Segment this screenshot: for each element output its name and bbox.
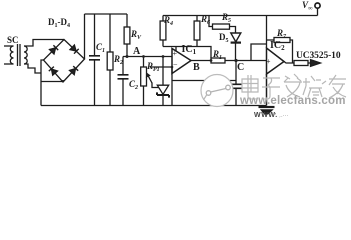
watermark url text: [240, 95, 350, 107]
watermark circle logo: [201, 75, 233, 107]
resistor R6 lead top: [196, 16, 198, 22]
node B wire: [191, 60, 211, 62]
capacitor C3 plates: [231, 84, 242, 88]
bridge diode D1: [50, 48, 56, 54]
capacitor C2 lead top: [122, 57, 124, 75]
bridge diode D2: [70, 45, 76, 51]
wire Vcc to IC2: [266, 16, 268, 49]
resistor R4 lead bottom: [162, 40, 164, 47]
wire IC1 minus to lower bus: [171, 67, 173, 106]
resistor R1 body: [211, 58, 225, 63]
IC2 output wire: [284, 62, 294, 64]
wire R4 R6 to node B: [163, 47, 211, 59]
IC2 input loop box: [251, 44, 267, 61]
resistor RV body: [124, 27, 130, 44]
wire bridge left leg: [41, 60, 44, 106]
resistor R7 lead right: [290, 40, 293, 63]
capacitor C2 plates: [118, 75, 129, 79]
output arrow: [311, 60, 321, 67]
resistor R5 lead left: [209, 16, 213, 27]
op-amp IC2 triangle: [267, 48, 285, 74]
bridge diode D3: [52, 69, 58, 75]
wire secondary top to bridge: [24, 40, 64, 47]
resistor R2 lead bottom: [109, 70, 111, 106]
resistor R4 lead top: [162, 16, 164, 22]
Vcc terminal circle: [315, 3, 320, 8]
wire bus to IC1 plus input: [175, 47, 177, 52]
zener diode triangle: [157, 85, 168, 94]
resistor R7 body: [274, 38, 290, 43]
wire IC1 minus input: [150, 66, 172, 68]
capacitor C1 lead top: [94, 14, 96, 56]
junction dots: [126, 55, 238, 68]
potentiometer RP1 wiper arrow: [148, 75, 152, 83]
zener diode lead top: [162, 57, 164, 86]
diode D5 triangle: [231, 33, 241, 42]
labels: [7, 35, 19, 45]
output wire to arrow: [308, 62, 311, 64]
capacitor C1 plates: [89, 56, 100, 60]
bridge diode D4: [70, 69, 76, 75]
wire R1 to node C: [225, 60, 267, 62]
resistor RV lead top: [126, 14, 128, 27]
wire bridge bottom leg: [41, 80, 63, 82]
transformer SC primary stub top: [4, 45, 14, 47]
transformer SC secondary winding: [24, 46, 27, 64]
resistor R6 lead bottom: [196, 40, 198, 47]
top rail Vcc: [163, 15, 318, 17]
node A wire: [123, 56, 172, 58]
diode D5 lead bottom: [235, 42, 237, 61]
op-amp IC1 triangle: [172, 49, 191, 74]
watermark hanzi outlines: [242, 74, 346, 99]
zener diode lead bottom: [162, 95, 164, 106]
potentiometer RP1 lead top: [143, 57, 145, 68]
ground symbol: [259, 106, 275, 108]
resistor R2 lead top: [109, 14, 111, 52]
resistor RV lead bottom: [126, 44, 128, 57]
bottom rail: [41, 105, 267, 107]
top-left rail: [85, 13, 128, 15]
transformer SC primary stub bottom: [4, 63, 14, 65]
potentiometer RP1 body: [141, 67, 147, 86]
op-amp IC2 ground lead: [266, 74, 268, 106]
zener diode bar: [157, 92, 169, 97]
capacitor C1 lead bottom: [94, 61, 96, 106]
wire node C cap leg: [235, 61, 237, 85]
diode D5 bar: [231, 41, 241, 43]
output resistor body: [294, 61, 308, 66]
resistor R6 body: [194, 21, 200, 40]
capacitor C2 lead bottom: [122, 80, 124, 106]
wire secondary bottom: [24, 64, 41, 73]
potentiometer RP1 wiper tail wire: [152, 83, 159, 88]
resistor R7 lead left: [267, 39, 275, 41]
resistor R5 lead right: [230, 27, 236, 34]
wire bridge right corner up: [84, 14, 86, 59]
transformer SC primary winding: [10, 46, 13, 64]
resistor R2 body: [107, 52, 113, 70]
potentiometer RP1 lead bottom: [143, 86, 145, 106]
bridge D1-D4 diamond: [44, 40, 85, 83]
capacitor C3 lead bottom: [235, 89, 237, 106]
resistor R4 body: [160, 21, 166, 40]
resistor R5 body: [213, 24, 230, 29]
Vcc terminal riser: [317, 8, 319, 15]
transformer core: [18, 44, 21, 66]
